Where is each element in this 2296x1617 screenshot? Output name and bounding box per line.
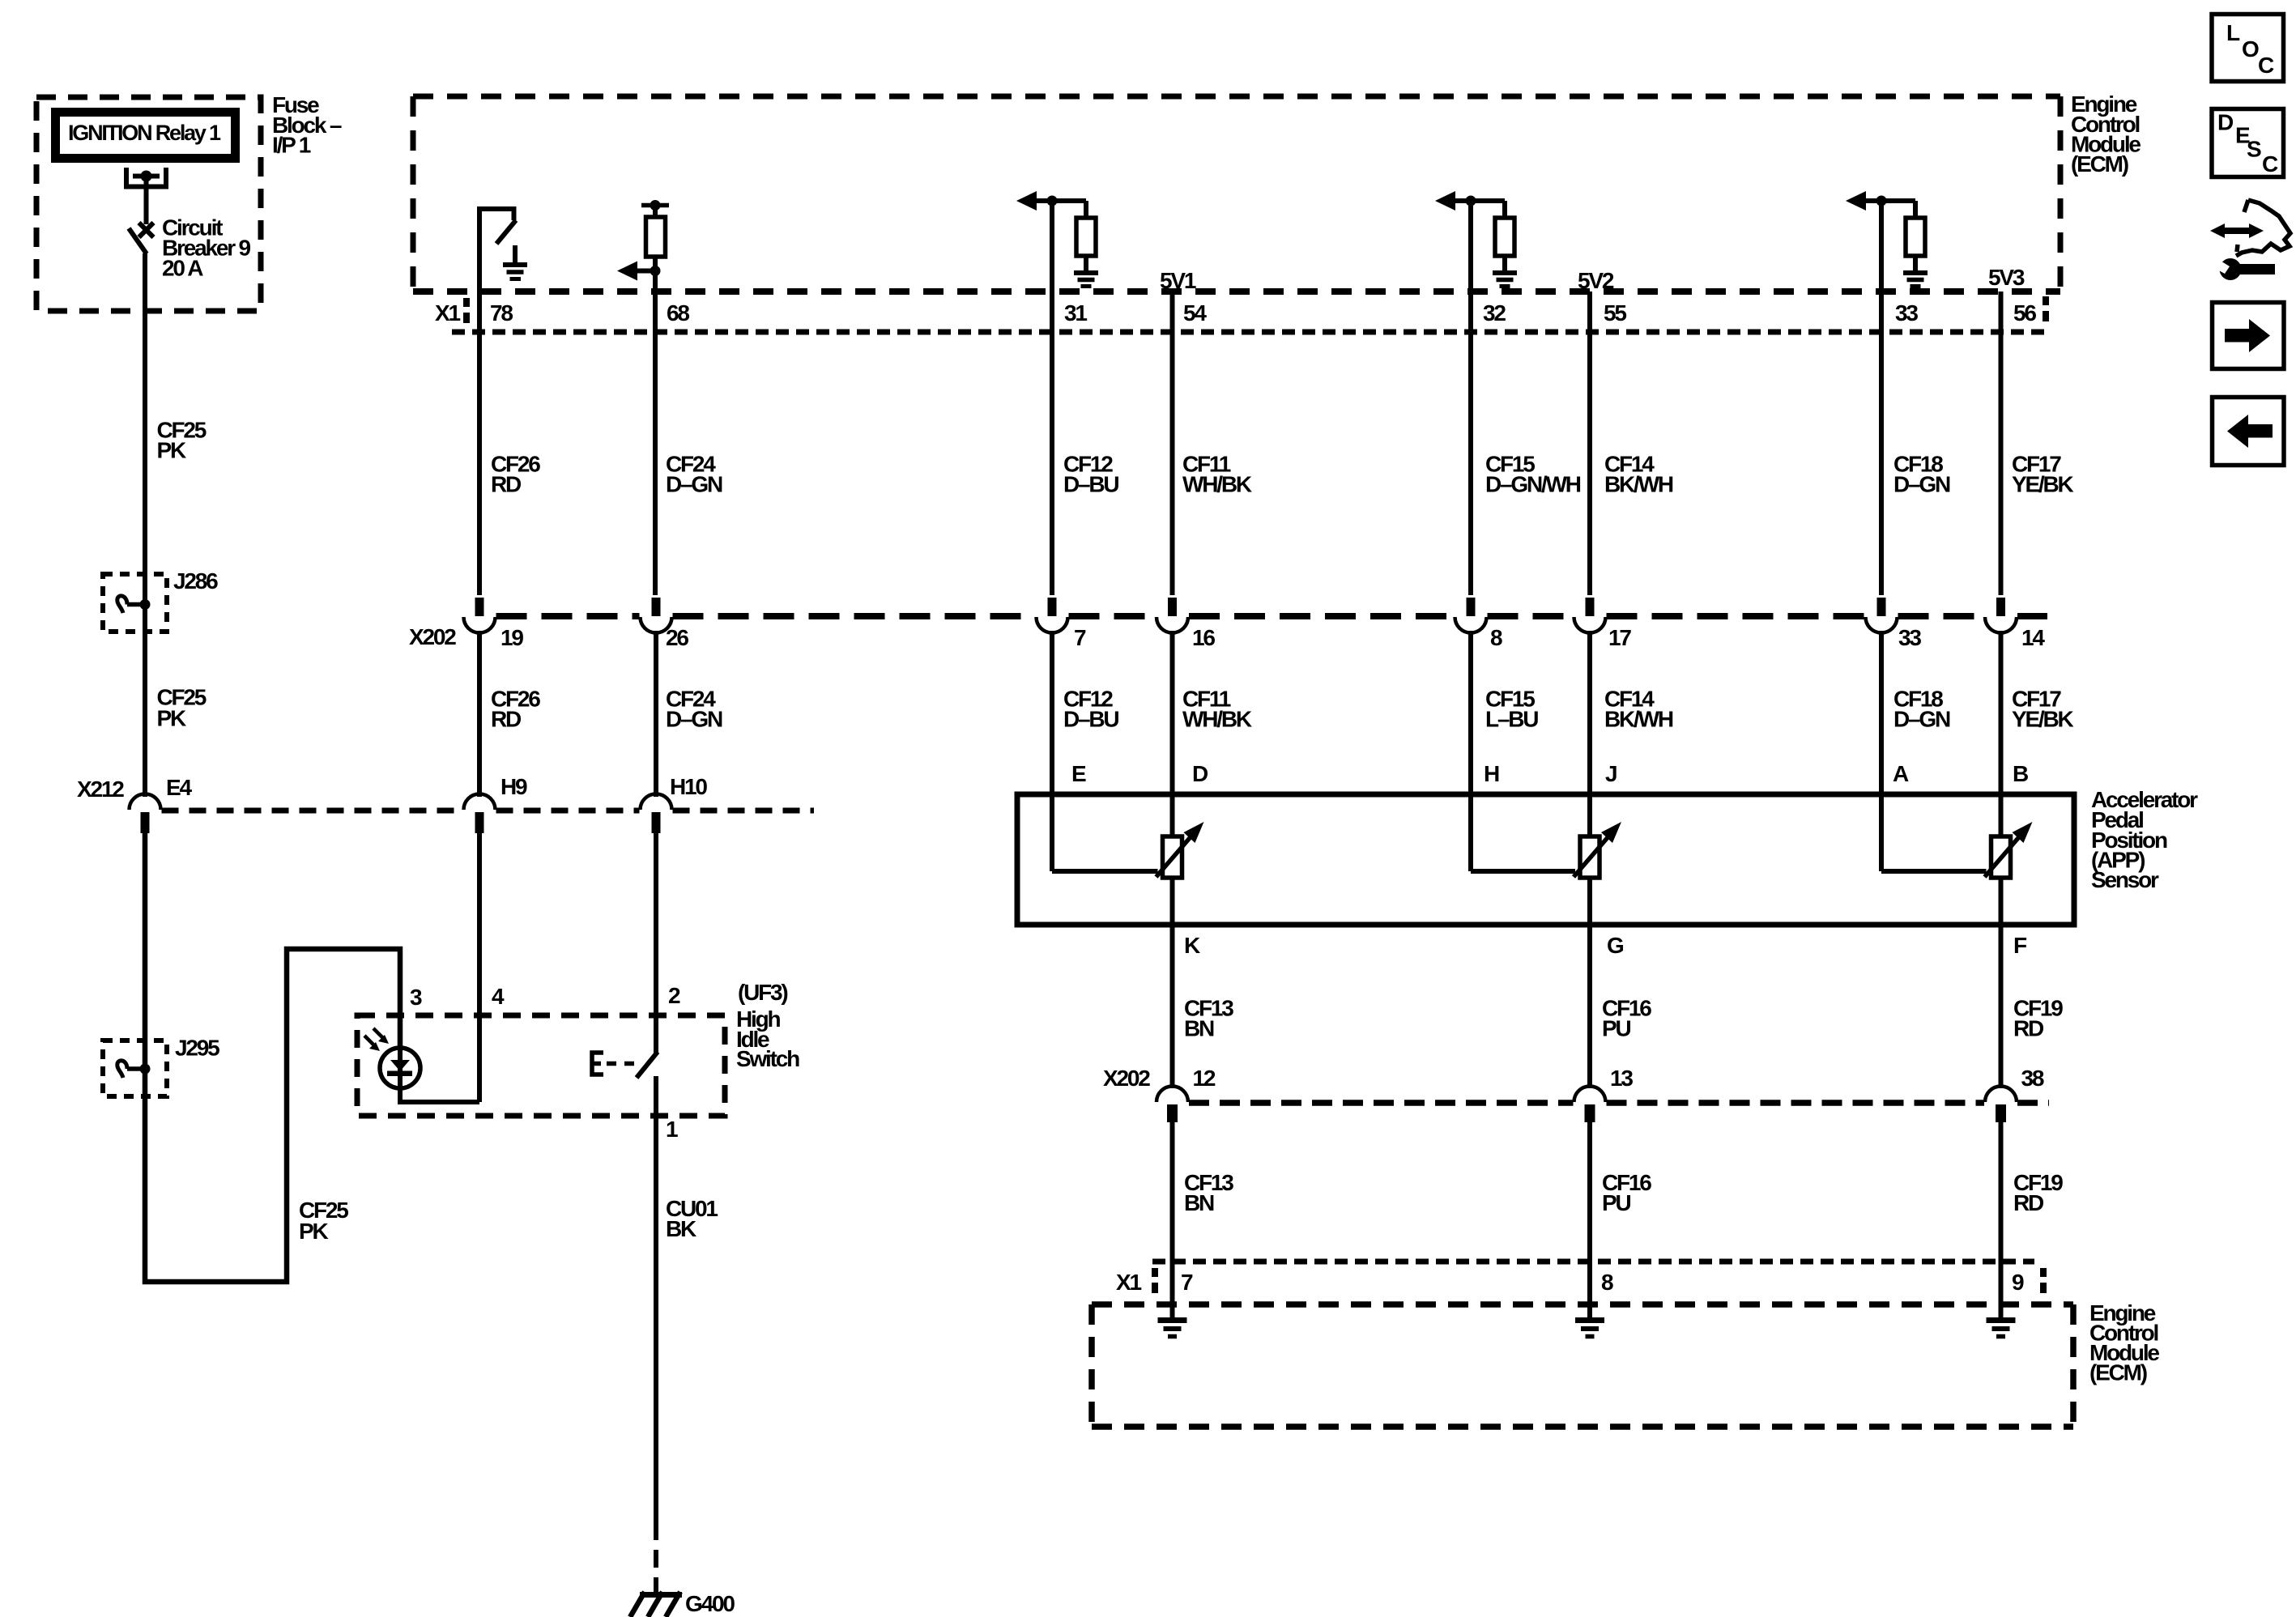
wire from ECM pin 54 down to X202 [1170,291,1175,595]
wire label CF17 YE/BK (upper band) [2012,452,2074,497]
svg-text:(ECM): (ECM) [2071,151,2128,177]
Accelerator Pedal Position (APP) Sensor box [1017,794,2074,925]
svg-text:IGNITION Relay 1: IGNITION Relay 1 [68,121,221,145]
wire label CF12 D-BU (second band) [1063,687,1118,732]
ground G400 symbol [630,1592,682,1617]
high idle switch E-bracket and dashes [592,1053,634,1074]
X212 connector terminal at pin H10 [641,794,672,834]
APP potentiometer 2: wiper arrow [1574,822,1621,877]
X202 upper row connector terminal at pin 26 [641,598,672,633]
svg-text:J286: J286 [173,568,218,594]
svg-text:H9: H9 [501,774,527,799]
X202 upper row connector terminal at pin 14 [1985,598,2017,633]
svg-text:5V3: 5V3 [1988,265,2025,290]
svg-text:H: H [1484,761,1499,786]
svg-text:8: 8 [1490,625,1502,650]
X202 lower row connector terminal at pin 12 [1157,1087,1188,1122]
svg-text:BK/WH: BK/WH [1604,707,1673,732]
wire label CF11 WH/BK (upper band) [1182,452,1252,497]
svg-text:C: C [2262,151,2278,177]
wire CF26 RD pin 4 branch into switch box [477,833,482,1102]
wire CF13 from X202 down to ECM X1 [1170,1122,1175,1318]
svg-text:PU: PU [1602,1016,1630,1041]
X202 upper row connector terminal at pin 19 [464,598,496,633]
splice J295 dot and pigtail [117,1061,151,1078]
X1 row left separator [463,298,470,323]
svg-text:A: A [1893,761,1909,786]
svg-text:PU: PU [1602,1190,1630,1215]
ECM resistor at pin 68 [641,200,669,276]
APP potentiometer 2: output wire to box bottom [1587,878,1592,925]
wire CF17 from X202 down [1999,631,2004,794]
wire label CF24 D-GN (second band) [666,687,722,732]
svg-text:K: K [1184,933,1200,958]
svg-text:J295: J295 [175,1036,219,1061]
signal arrow (to left) at pin 68 node [617,262,661,281]
X202 upper row connector terminal at pin 16 [1157,598,1188,633]
svg-text:G: G [1607,933,1624,958]
connector X1 row (lower) fine dotted line [1152,1259,2034,1265]
wire CF19 from APP sensor down to X202 [1999,925,2004,1088]
wire label CF18 D-GN (second band) [1893,687,1950,732]
ECM bottom label: Engine Control Module (ECM) [2089,1300,2159,1385]
wire CF26 RD from pin 78 to X202 pin 19 [477,291,482,595]
svg-text:WH/BK: WH/BK [1182,472,1252,497]
svg-text:2: 2 [668,983,680,1008]
X202 lower row connector terminal at pin 38 [1985,1087,2017,1122]
ECM internal ground near pin 32 [1493,273,1517,287]
ECM ground symbol at X1 pin 9 [1987,1321,2016,1337]
wire CF24 D-GN from X212 to switch contact [654,833,658,1053]
wire CF24 D-GN from pin 68 to X202 pin 26 [653,276,658,595]
ECM signal arrow and node at pin 32 [1435,191,1505,211]
splice J286 dot and pigtail [117,596,151,613]
wire label CF13 BN (fourth band) [1184,1170,1233,1215]
wire label CF19 RD (third band) [2013,996,2063,1041]
wire label CU01 BK [666,1196,718,1241]
wire label CF16 PU (third band) [1602,996,1651,1041]
svg-text:19: 19 [501,625,523,650]
svg-text:X212: X212 [77,777,124,802]
ECM pull-up resistor at pin 32 [1495,201,1514,273]
svg-text:16: 16 [1192,625,1215,650]
circuit breaker 9 contact X mark [139,223,154,237]
APP potentiometer 2: feed wires inside box [1471,794,1590,871]
X202 lower row connector terminal at pin 13 [1574,1087,1606,1122]
LED indicator circle [380,1048,420,1088]
wire CF16 from X202 down to ECM X1 [1587,1122,1592,1318]
svg-text:D–BU: D–BU [1063,707,1118,732]
APP potentiometer 1: feed wires inside box [1052,794,1173,871]
svg-text:17: 17 [1608,625,1631,650]
svg-text:8: 8 [1601,1270,1613,1295]
relay contact symbol [126,168,166,224]
svg-text:D–GN: D–GN [666,472,722,497]
svg-text:12: 12 [1193,1066,1216,1091]
svg-text:RD: RD [2013,1016,2044,1041]
svg-text:J: J [1605,761,1617,786]
hand/diagnostic icon: hand outline [2236,200,2290,256]
svg-text:RD: RD [491,707,522,732]
wire label CF24 D-GN (upper band) [666,452,722,497]
svg-text:D–GN/WH: D–GN/WH [1485,472,1581,497]
X202 upper row connector terminal at pin 33 [1866,598,1898,633]
svg-text:13: 13 [1610,1066,1633,1091]
wire from ECM pin 55 down to X202 [1587,291,1592,595]
ECM internal ground near pin 33 [1903,273,1928,287]
splice J295 dashed box [103,1040,167,1096]
svg-text:WH/BK: WH/BK [1182,707,1252,732]
wire CF13 from APP sensor down to X202 [1170,925,1175,1088]
svg-text:F: F [2013,933,2027,958]
wire label CF13 BN (third band) [1184,996,1233,1041]
wire label CF15 L-BU (second band) [1485,687,1538,732]
ECM top module dashed box [413,96,2060,291]
svg-text:S: S [2247,137,2261,162]
X1 lower row left separator [1152,1268,1158,1293]
X202 upper row connector terminal at pin 17 [1574,598,1606,633]
svg-text:PK: PK [157,706,186,731]
DESC icon box [2212,109,2284,177]
svg-text:33: 33 [1898,625,1921,650]
svg-text:PK: PK [157,438,186,463]
svg-text:PK: PK [299,1219,328,1244]
svg-text:(ECM): (ECM) [2089,1360,2147,1385]
wire label CF16 PU (fourth band) [1602,1170,1651,1215]
svg-text:33: 33 [1895,300,1918,326]
svg-text:D: D [2217,110,2234,135]
wire CF25 PK from circuit breaker down to X212 [143,253,147,797]
X212 connector terminal at pin H9 [464,794,496,834]
svg-text:7: 7 [1181,1270,1193,1295]
svg-text:X1: X1 [435,300,460,326]
connector X1 row (top) fine dotted line [452,330,2046,335]
ECM internal ground symbol near pin 78 [503,245,527,279]
high idle switch blade [637,1052,658,1078]
APP potentiometer 3: output wire to box bottom [1999,878,2004,925]
ECM bottom module dashed box [1092,1304,2073,1427]
wire label CF25 PK (second) [157,685,207,731]
connector X202 row (lower) dashed line [1189,1100,2049,1106]
fuse block label: Fuse Block - I/P 1 [272,92,342,158]
X202 upper row connector terminal at pin 8 [1455,598,1487,633]
svg-text:(UF3): (UF3) [738,980,787,1005]
connector X1 row (top) thick dashed line [413,288,2060,295]
ECM pull-up resistor at pin 33 [1906,201,1925,273]
ECM top label: Engine Control Module (ECM) [2071,91,2141,177]
svg-text:L: L [2226,20,2240,45]
X202 upper row connector terminal at pin 7 [1037,598,1068,633]
ECM signal arrow and node at pin 31 [1016,191,1086,211]
svg-text:E4: E4 [166,775,192,800]
svg-text:G400: G400 [685,1591,735,1616]
wire from ECM pin 56 down to X202 [1999,291,2004,595]
wire CF14 from X202 down [1587,631,1592,794]
LED bottom wire to CF26 [400,1048,479,1102]
ECM ground symbol at X1 pin 8 [1575,1321,1604,1337]
LED triangle and bar [387,1060,412,1076]
wire label CF14 BK/WH (second band) [1604,687,1673,732]
ECM internal switch at pin 78 [479,209,516,291]
APP potentiometer 3: wiper arrow [1985,822,2033,877]
connector X212 row dashed line [162,808,815,814]
svg-text:3: 3 [410,985,422,1010]
X212 connector terminal at pin E4 [130,794,161,834]
svg-text:E: E [1071,761,1086,786]
svg-text:BN: BN [1184,1016,1214,1041]
svg-text:78: 78 [490,300,513,326]
svg-text:14: 14 [2021,625,2045,650]
svg-text:BN: BN [1184,1190,1214,1215]
ECM ground symbol at X1 pin 7 [1158,1321,1187,1337]
wire CF19 from X202 down to ECM X1 [1999,1122,2004,1318]
hand/diagnostic icon: double arrow [2210,223,2264,238]
label High Idle Switch [736,1006,799,1071]
wire label CF25 PK (upper) [157,418,207,463]
svg-text:L–BU: L–BU [1485,707,1538,732]
dashed wire continuation to G400 [654,1522,658,1597]
svg-text:O: O [2242,36,2259,62]
svg-text:31: 31 [1064,300,1087,326]
APP potentiometer 1: wiper arrow [1157,822,1204,877]
APP potentiometer 3: resistor body [1991,836,2011,878]
svg-text:7: 7 [1074,625,1086,650]
wire CF18 from X202 down [1879,631,1884,794]
svg-text:YE/BK: YE/BK [2012,472,2074,497]
svg-text:BK/WH: BK/WH [1604,472,1673,497]
ECM internal ground near pin 31 [1074,273,1098,287]
svg-text:54: 54 [1183,300,1207,326]
hand/diagnostic icon: lower hook [2237,245,2238,252]
svg-text:C: C [2258,53,2274,78]
hand/diagnostic icon: thumb stroke [2244,200,2248,212]
svg-text:X1: X1 [1116,1270,1141,1295]
svg-text:D: D [1192,761,1208,786]
svg-text:Switch: Switch [736,1046,799,1071]
svg-text:56: 56 [2013,300,2036,326]
Fuse Block - I/P 1 dashed box [36,97,261,311]
wire label CF25 PK (lower) [299,1198,348,1244]
ECM signal arrow and node at pin 33 [1846,191,1915,211]
wrench icon [2216,258,2275,280]
svg-text:4: 4 [492,984,505,1009]
X1 row right separator [2043,296,2049,321]
svg-text:68: 68 [667,300,689,326]
wire label CF14 BK/WH (upper band) [1604,452,1673,497]
wire from ECM pin 33 down to X202 [1879,206,1884,595]
APP potentiometer 1: output wire to box bottom [1170,878,1175,925]
APP sensor label: Accelerator Pedal Position (APP) Sensor [2091,787,2198,892]
wire CF15 from X202 down [1468,631,1473,794]
svg-text:55: 55 [1604,300,1626,326]
relay: IGNITION Relay 1 label box [56,113,236,159]
APP potentiometer 1: resistor body [1163,836,1182,878]
svg-text:20 A: 20 A [162,256,203,281]
wire label CF12 D-BU (upper band) [1063,452,1118,497]
svg-text:RD: RD [2013,1190,2044,1215]
svg-text:D–BU: D–BU [1063,472,1118,497]
circuit breaker 9 blade [129,228,147,254]
wire label CF19 RD (fourth band) [2013,1170,2063,1215]
LED photo arrows [364,1028,389,1051]
svg-text:D–GN: D–GN [1893,472,1950,497]
wire from ECM pin 31 down to X202 [1050,206,1054,595]
wire label CF15 D-GN/WH (upper band) [1485,452,1581,497]
circuit breaker label: Circuit Breaker 9 20 A [162,215,250,281]
svg-text:BK: BK [666,1216,696,1241]
svg-text:Sensor: Sensor [2091,867,2159,892]
wire CF11 from X202 down [1170,631,1175,794]
wire CF24 from X202 down [654,631,658,797]
svg-text:RD: RD [491,472,522,497]
svg-text:I/P 1: I/P 1 [272,133,311,158]
wire label CF18 D-GN (upper band) [1893,452,1950,497]
ECM pull-up resistor at pin 31 [1076,201,1096,273]
svg-text:B: B [2013,761,2028,786]
wire CF26 from X202 down [477,631,482,797]
svg-text:26: 26 [666,625,688,650]
svg-text:X202: X202 [409,624,456,649]
LOC icon box [2212,15,2284,82]
wire CF16 from APP sensor down to X202 [1587,925,1592,1088]
svg-text:1: 1 [666,1117,678,1142]
svg-text:H10: H10 [670,774,707,799]
APP potentiometer 3: feed wires inside box [1881,794,2001,871]
wire CU01 BK from switch pin 1 down [654,1076,658,1522]
svg-text:D–GN: D–GN [666,707,722,732]
wire label CF11 WH/BK (second band) [1182,687,1252,732]
wire from ECM pin 32 down to X202 [1468,206,1473,595]
forward arrow icon box [2213,303,2285,369]
svg-text:D–GN: D–GN [1893,707,1950,732]
wire CF12 from X202 down [1050,631,1054,794]
APP potentiometer 2: resistor body [1580,836,1600,878]
svg-text:X202: X202 [1103,1066,1150,1091]
connector X202 row (upper) dashed line [496,613,2048,619]
wire label CF26 RD (upper band) [491,452,540,497]
svg-text:9: 9 [2012,1270,2024,1295]
wire label CF26 RD (second band) [491,687,540,732]
svg-text:YE/BK: YE/BK [2012,707,2074,732]
splice J286 dashed box [103,574,167,632]
wire CF25 PK from X212 down, around to LED branch [145,833,400,1282]
svg-text:38: 38 [2021,1066,2044,1091]
back arrow icon box [2213,398,2285,466]
High Idle Switch dashed box [357,1015,725,1116]
wire label CF17 YE/BK (second band) [2012,687,2074,732]
X1 lower row right separator [2040,1268,2047,1293]
svg-text:32: 32 [1483,300,1506,326]
